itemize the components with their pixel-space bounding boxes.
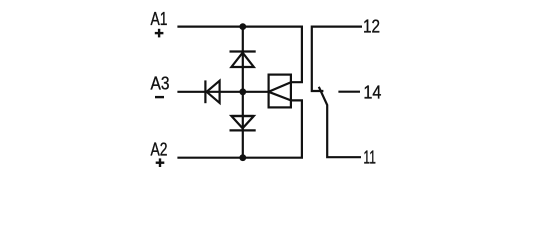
wire center vertical between rails [242, 27, 244, 158]
wire A3 row [177, 91, 268, 93]
wire terminal 12 with fixed contact [312, 27, 362, 91]
junction dot top [239, 23, 246, 30]
relay coil K1 [269, 75, 291, 108]
wire A2 rail to coil lower stub [177, 100, 302, 157]
plus sign under A2 [156, 158, 165, 167]
svg-text:A1: A1 [151, 8, 168, 29]
svg-text:14: 14 [363, 82, 381, 103]
junction dot middle [239, 88, 246, 95]
svg-text:12: 12 [363, 16, 380, 37]
svg-text:11: 11 [363, 147, 376, 168]
svg-text:A2: A2 [151, 139, 168, 160]
wire A1 rail to coil upper stub [177, 27, 302, 83]
diode D3 on A3 line (cathode left) [205, 80, 219, 103]
wire terminal 14 [338, 91, 360, 93]
diode D1 upper (cathode up) [230, 52, 256, 68]
svg-text:A3: A3 [151, 73, 170, 94]
junction dot bottom [239, 154, 246, 161]
relay contact blade to terminal 11 [319, 87, 361, 157]
diode D2 lower (cathode down) [230, 116, 256, 130]
minus sign under A3 [155, 96, 164, 98]
plus sign under A1 [155, 29, 164, 38]
